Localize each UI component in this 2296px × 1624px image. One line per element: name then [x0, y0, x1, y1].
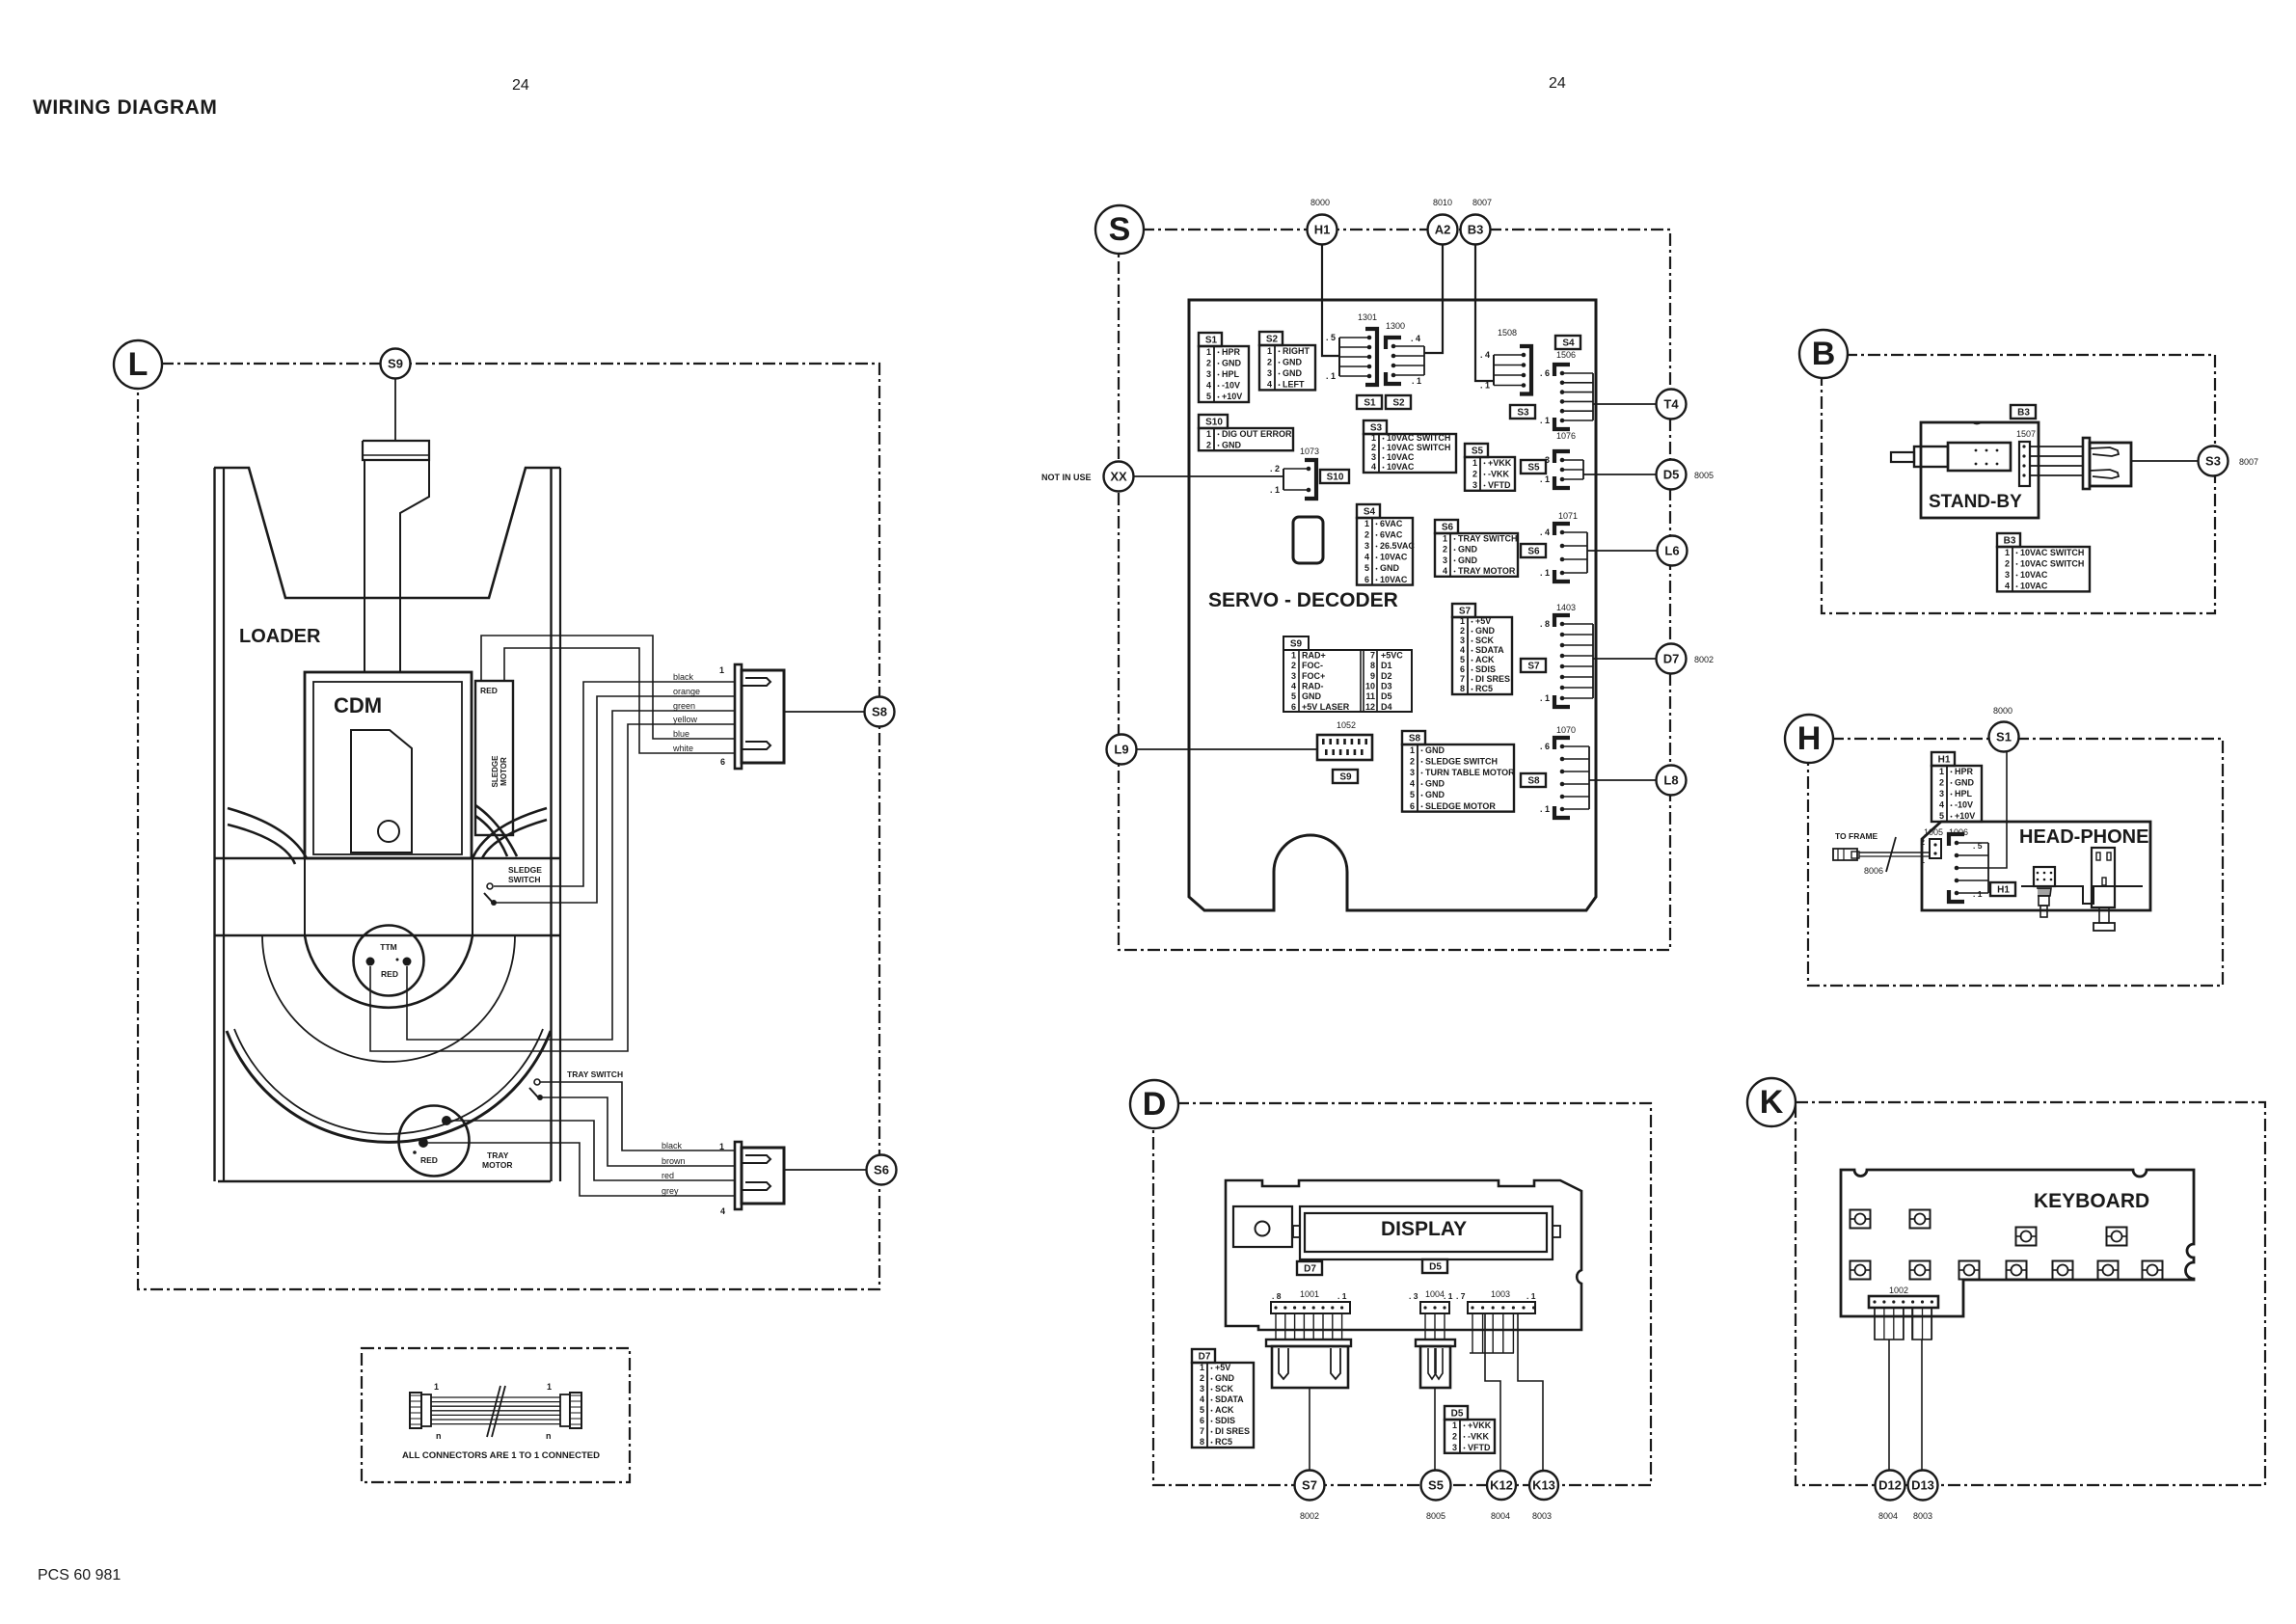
svg-text:5: 5 [1410, 790, 1415, 799]
svg-text:26.5VAC: 26.5VAC [1380, 541, 1415, 551]
svg-text:. 1: . 1 [1444, 1291, 1453, 1301]
svg-text:n: n [436, 1431, 442, 1441]
plug 1001 [1266, 1340, 1351, 1388]
svg-text:1: 1 [434, 1382, 439, 1392]
svg-text:1076: 1076 [1556, 431, 1576, 441]
svg-text:B3: B3 [1468, 223, 1484, 237]
svg-text:S9: S9 [388, 357, 403, 371]
wire 1006 bus to S1 [1988, 752, 2007, 868]
svg-text:H: H [1797, 720, 1822, 757]
svg-text:+5VC: +5VC [1381, 650, 1403, 660]
svg-text:grey: grey [662, 1186, 679, 1196]
boxed label D5 [1422, 1259, 1447, 1273]
svg-text:S7: S7 [1302, 1478, 1317, 1493]
svg-text:2: 2 [1472, 469, 1477, 478]
svg-text:8005: 8005 [1694, 471, 1714, 480]
wire orange S8 pin2 [496, 696, 735, 903]
node D12 [1876, 1471, 1905, 1501]
svg-text:8004: 8004 [1491, 1511, 1510, 1521]
svg-text:S9: S9 [1339, 772, 1352, 783]
svg-text:DIG OUT ERROR: DIG OUT ERROR [1222, 429, 1292, 439]
svg-text:1: 1 [1472, 458, 1477, 468]
wire grey S6 pin4 [428, 1143, 735, 1196]
svg-text:2: 2 [1921, 838, 1926, 847]
svg-text:VFTD: VFTD [1468, 1443, 1491, 1452]
svg-text:6: 6 [1364, 575, 1369, 584]
svg-text:24: 24 [512, 77, 529, 94]
svg-text:S: S [1109, 211, 1131, 248]
node L [114, 340, 162, 389]
svg-text:TRAY: TRAY [487, 1150, 509, 1160]
svg-text:red: red [662, 1171, 674, 1180]
wire yellow S8 pin4 [370, 724, 735, 1051]
ribbon connector left [410, 1393, 431, 1428]
svg-text:5: 5 [1200, 1405, 1204, 1415]
svg-text:1: 1 [1371, 433, 1376, 443]
svg-text:-10V: -10V [1222, 381, 1240, 391]
svg-text:A2: A2 [1435, 223, 1451, 237]
deck verticals [304, 858, 306, 935]
headphone jack left [2034, 867, 2055, 917]
svg-text:LOADER: LOADER [239, 626, 321, 647]
svg-text:black: black [662, 1141, 683, 1150]
svg-text:. 1: . 1 [1540, 474, 1550, 484]
svg-text:. 7: . 7 [1456, 1291, 1466, 1301]
svg-text:5: 5 [1460, 655, 1465, 664]
svg-text:FOC+: FOC+ [1302, 671, 1325, 681]
svg-text:D7: D7 [1304, 1264, 1316, 1275]
svg-text:8003: 8003 [1532, 1511, 1552, 1521]
svg-text:1: 1 [1200, 1363, 1204, 1372]
svg-text:D13: D13 [1911, 1478, 1934, 1493]
node D [1130, 1080, 1178, 1128]
wire 1003 to K13 [1518, 1313, 1543, 1470]
svg-text:. 8: . 8 [1272, 1291, 1282, 1301]
svg-text:5: 5 [1206, 392, 1211, 401]
svg-text:LEFT: LEFT [1283, 380, 1305, 390]
node L6 [1658, 536, 1688, 566]
svg-text:L9: L9 [1114, 743, 1128, 757]
svg-text:12: 12 [1365, 702, 1375, 712]
svg-text:SLEDGE SWITCH: SLEDGE SWITCH [1425, 756, 1498, 766]
svg-text:8002: 8002 [1694, 655, 1714, 664]
svg-text:GND: GND [1425, 745, 1445, 755]
svg-text:3: 3 [1364, 541, 1369, 551]
node K [1747, 1078, 1796, 1126]
svg-text:8: 8 [1370, 661, 1375, 670]
svg-text:+VKK: +VKK [1468, 1421, 1492, 1430]
svg-text:3: 3 [1371, 452, 1376, 462]
svg-text:. 5: . 5 [1973, 841, 1983, 851]
svg-text:green: green [673, 701, 695, 711]
svg-text:H1: H1 [1314, 223, 1331, 237]
svg-text:TURN TABLE MOTOR: TURN TABLE MOTOR [1425, 768, 1515, 777]
display side tabs [1293, 1226, 1300, 1237]
svg-text:. 1: . 1 [1270, 485, 1280, 495]
svg-text:8: 8 [1460, 684, 1465, 693]
svg-text:6VAC: 6VAC [1380, 529, 1403, 539]
svg-text:1508: 1508 [1498, 328, 1517, 338]
svg-text:CDM: CDM [334, 693, 382, 717]
wire H1 to 1301 [1322, 244, 1339, 356]
svg-text:6: 6 [1200, 1416, 1204, 1425]
svg-text:GND: GND [1283, 357, 1303, 366]
servo decoder board outline [1189, 300, 1596, 910]
svg-text:+VKK: +VKK [1488, 458, 1512, 468]
ribbon slash [487, 1386, 500, 1437]
svg-text:white: white [672, 744, 693, 753]
svg-text:DI SRES: DI SRES [1215, 1426, 1250, 1436]
svg-text:1: 1 [1206, 347, 1211, 357]
wire 1003 to K12 [1485, 1313, 1500, 1470]
wire to D13 [1921, 1340, 1923, 1470]
svg-text:7: 7 [1370, 650, 1375, 660]
svg-text:D2: D2 [1381, 671, 1392, 681]
svg-text:ALL CONNECTORS ARE 1 TO 1 CONN: ALL CONNECTORS ARE 1 TO 1 CONNECTED [402, 1450, 600, 1461]
svg-text:S7: S7 [1527, 662, 1540, 672]
svg-text:GND: GND [1425, 779, 1445, 789]
node H [1785, 715, 1833, 763]
node S5 display [1421, 1471, 1451, 1501]
node S9 [381, 349, 411, 379]
svg-text:S4: S4 [1364, 507, 1376, 518]
svg-text:3: 3 [1939, 789, 1944, 798]
svg-text:XX: XX [1110, 470, 1127, 484]
node S [1095, 205, 1144, 254]
svg-text:10VAC: 10VAC [1380, 575, 1408, 584]
CDM arm stem [363, 441, 429, 460]
svg-text:MOTOR: MOTOR [482, 1160, 512, 1170]
svg-text:3: 3 [2005, 570, 2010, 580]
svg-text:. 4: . 4 [1411, 334, 1420, 343]
loader deck lines [214, 857, 560, 860]
svg-text:. 1: . 1 [1326, 371, 1336, 381]
svg-text:. 1: . 1 [1540, 693, 1550, 703]
svg-text:1073: 1073 [1300, 447, 1319, 456]
svg-text:1: 1 [547, 1382, 552, 1392]
wire plug to S5 [1434, 1388, 1436, 1470]
svg-text:GND: GND [1215, 1373, 1235, 1383]
table S4 [1357, 504, 1415, 585]
svg-text:6VAC: 6VAC [1380, 519, 1403, 528]
svg-text:2: 2 [1939, 777, 1944, 787]
svg-text:. 5: . 5 [1326, 333, 1336, 342]
svg-text:KEYBOARD: KEYBOARD [2034, 1190, 2149, 1212]
svg-text:RAD-: RAD- [1302, 681, 1324, 690]
svg-text:2: 2 [1267, 357, 1272, 366]
svg-text:L6: L6 [1664, 544, 1679, 558]
svg-text:orange: orange [673, 687, 700, 696]
node D5 [1657, 460, 1687, 490]
svg-text:1: 1 [719, 665, 724, 675]
svg-text:S10: S10 [1205, 418, 1223, 428]
svg-text:. 4: . 4 [1480, 350, 1490, 360]
svg-text:8000: 8000 [1993, 706, 2012, 716]
wire plug to S3 [2131, 460, 2199, 462]
svg-text:6: 6 [1291, 702, 1296, 712]
block K dashed border [1796, 1102, 2265, 1485]
svg-text:1004: 1004 [1425, 1289, 1445, 1299]
boxed label S3 [1510, 405, 1535, 419]
svg-text:9: 9 [1370, 671, 1375, 681]
svg-text:MOTOR: MOTOR [500, 757, 508, 786]
svg-text:5: 5 [1939, 811, 1944, 821]
svg-text:4: 4 [1206, 381, 1211, 391]
svg-text:2: 2 [1371, 443, 1376, 452]
svg-text:. 1: . 1 [1480, 381, 1490, 391]
svg-text:4: 4 [1267, 380, 1272, 390]
svg-text:. 6: . 6 [1540, 742, 1550, 751]
svg-text:SLEDGE: SLEDGE [508, 865, 542, 875]
head-phone board [1922, 822, 2150, 910]
svg-text:STAND-BY: STAND-BY [1929, 492, 2022, 512]
svg-text:HPR: HPR [1222, 347, 1241, 357]
node S8 [865, 697, 895, 727]
keyboard keys [1850, 1210, 1871, 1229]
wire black S6 pin1 [540, 1082, 735, 1150]
svg-text:K: K [1760, 1084, 1784, 1121]
svg-text:1: 1 [1267, 346, 1272, 356]
svg-text:WIRING DIAGRAM: WIRING DIAGRAM [33, 96, 217, 119]
svg-text:S5: S5 [1472, 447, 1484, 457]
table H1 [1931, 752, 1982, 822]
svg-text:GND: GND [1475, 626, 1496, 636]
boxed label S6 right [1521, 544, 1546, 557]
tray arcs outer [227, 1031, 551, 1142]
boxed label S10 [1320, 470, 1349, 483]
table B3 [1997, 533, 2090, 591]
svg-text:+5V: +5V [1215, 1363, 1230, 1372]
svg-text:1507: 1507 [2016, 429, 2036, 439]
wire S9 stem [394, 379, 396, 441]
svg-text:S4: S4 [1562, 338, 1575, 349]
svg-text:2: 2 [1206, 440, 1211, 449]
svg-text:4: 4 [1460, 645, 1465, 655]
boxed label S9 below [1333, 770, 1358, 783]
svg-text:10VAC: 10VAC [1387, 452, 1415, 462]
svg-text:L8: L8 [1663, 773, 1678, 788]
svg-text:SLEDGE: SLEDGE [491, 755, 500, 788]
svg-text:1002: 1002 [1889, 1286, 1908, 1295]
svg-text:3: 3 [1460, 636, 1465, 645]
svg-text:GND: GND [1458, 555, 1478, 565]
svg-text:6: 6 [1410, 801, 1415, 811]
svg-text:4: 4 [1939, 800, 1944, 810]
svg-text:HPL: HPL [1955, 789, 1973, 798]
table D7 display [1192, 1349, 1254, 1448]
svg-text:6: 6 [1460, 664, 1465, 674]
svg-text:1052: 1052 [1337, 720, 1356, 730]
table S9 dual [1283, 636, 1412, 712]
svg-text:6: 6 [720, 757, 725, 767]
table S10 [1199, 415, 1293, 450]
svg-text:3: 3 [1410, 768, 1415, 777]
svg-text:H1: H1 [1997, 885, 2010, 896]
svg-text:3: 3 [1452, 1443, 1457, 1452]
svg-text:3: 3 [1200, 1384, 1204, 1394]
svg-text:2: 2 [1460, 626, 1465, 636]
wire plug to S6 [784, 1169, 867, 1171]
svg-text:. 2: . 2 [1270, 464, 1280, 474]
svg-text:S6: S6 [1442, 523, 1454, 533]
svg-text:1: 1 [1410, 745, 1415, 755]
svg-text:. 1: . 1 [1412, 376, 1421, 386]
stand-by switch shaft [1891, 452, 1914, 462]
svg-text:ACK: ACK [1215, 1405, 1234, 1415]
node K13 [1529, 1471, 1558, 1500]
svg-text:S7: S7 [1459, 607, 1472, 617]
svg-text:-VKK: -VKK [1468, 1431, 1489, 1441]
wire blue S8 pin5 [481, 636, 735, 739]
svg-text:1071: 1071 [1558, 511, 1578, 521]
svg-text:B: B [1812, 336, 1836, 372]
svg-text:SDATA: SDATA [1215, 1394, 1244, 1404]
svg-text:SDIS: SDIS [1475, 664, 1496, 674]
block S dashed border [1119, 230, 1670, 950]
wire green S8 pin3 [407, 711, 735, 1040]
sledge switch [487, 883, 493, 889]
sledge motor hinge arcs [475, 805, 517, 856]
svg-text:GND: GND [1302, 691, 1322, 701]
svg-text:2: 2 [1443, 545, 1447, 555]
node D7 [1657, 644, 1687, 674]
svg-text:S3: S3 [1370, 423, 1383, 434]
svg-text:RED: RED [381, 969, 398, 979]
svg-text:HPL: HPL [1222, 369, 1240, 379]
svg-text:1070: 1070 [1556, 725, 1576, 735]
stand-by box [1921, 422, 2039, 518]
svg-text:8004: 8004 [1878, 1511, 1898, 1521]
svg-text:ACK: ACK [1475, 655, 1495, 664]
wire lug to 1005 with slash [1859, 852, 1930, 853]
node B3 [1461, 215, 1491, 245]
svg-text:+5V LASER: +5V LASER [1302, 702, 1350, 712]
svg-text:FOC-: FOC- [1302, 661, 1323, 670]
svg-text:K13: K13 [1532, 1478, 1555, 1493]
svg-text:2: 2 [1206, 358, 1211, 367]
svg-text:2: 2 [1452, 1431, 1457, 1441]
svg-text:S6: S6 [874, 1163, 889, 1177]
connector 1003 header [1468, 1302, 1535, 1313]
wire white S8 pin6 [504, 648, 735, 753]
svg-text:3: 3 [1206, 369, 1211, 379]
node L9 [1107, 735, 1137, 765]
svg-text:10VAC: 10VAC [1387, 462, 1415, 472]
wire L9 to 1052 [1137, 748, 1317, 750]
svg-text:D5: D5 [1381, 691, 1392, 701]
svg-text:D12: D12 [1878, 1478, 1902, 1493]
node B [1799, 330, 1848, 378]
svg-text:S3: S3 [2205, 454, 2221, 469]
connector plug S6 [735, 1142, 784, 1209]
svg-text:S2: S2 [1392, 398, 1405, 409]
svg-text:HPR: HPR [1955, 767, 1974, 776]
node S1 headphone [1989, 722, 2019, 752]
svg-text:GND: GND [1222, 358, 1242, 367]
display left box with hole [1233, 1206, 1292, 1247]
svg-text:10VAC: 10VAC [2020, 582, 2048, 591]
plug 1004 [1416, 1340, 1455, 1388]
svg-text:1: 1 [1206, 429, 1211, 439]
svg-text:TO FRAME: TO FRAME [1835, 831, 1878, 841]
svg-text:RED: RED [420, 1155, 438, 1165]
display window [1300, 1206, 1553, 1259]
table D5 display [1445, 1406, 1495, 1453]
table S7 [1452, 604, 1512, 694]
node S6 [867, 1155, 897, 1185]
wire XX to 1073 [1134, 475, 1283, 477]
node L8 [1657, 766, 1687, 796]
node H1 [1308, 215, 1337, 245]
svg-text:TTM: TTM [380, 942, 396, 952]
svg-text:S5: S5 [1527, 463, 1540, 474]
wires 1002 [1874, 1308, 1876, 1340]
node T4 [1657, 390, 1687, 420]
svg-text:RC5: RC5 [1475, 684, 1493, 693]
wire plug to S8 [784, 711, 865, 713]
svg-text:1: 1 [1460, 616, 1465, 626]
svg-text:black: black [673, 672, 694, 682]
svg-text:3: 3 [1472, 480, 1477, 490]
svg-text:. 1: . 1 [1337, 1291, 1347, 1301]
svg-text:n: n [546, 1431, 552, 1441]
table S6 [1435, 520, 1518, 577]
svg-text:S6: S6 [1527, 547, 1540, 557]
svg-text:1: 1 [1443, 533, 1447, 543]
svg-text:4: 4 [1371, 462, 1376, 472]
svg-text:. 1: . 1 [1540, 416, 1550, 425]
svg-text:SLEDGE MOTOR: SLEDGE MOTOR [1425, 801, 1496, 811]
node D13 [1908, 1471, 1938, 1501]
wire red S6 pin3 [451, 1121, 735, 1180]
svg-text:8: 8 [1200, 1437, 1204, 1447]
svg-text:11: 11 [1365, 691, 1375, 701]
svg-text:2: 2 [1200, 1373, 1204, 1383]
svg-text:2: 2 [1410, 756, 1415, 766]
standby plug [2083, 438, 2131, 489]
tray motor [399, 1106, 470, 1177]
svg-text:SDATA: SDATA [1475, 645, 1504, 655]
svg-text:D: D [1143, 1086, 1167, 1123]
svg-text:-VKK: -VKK [1488, 469, 1509, 478]
svg-text:S2: S2 [1266, 335, 1279, 345]
svg-text:. 4: . 4 [1540, 528, 1550, 537]
tray switch [534, 1079, 540, 1085]
svg-text:brown: brown [662, 1156, 686, 1166]
svg-text:L: L [128, 346, 149, 383]
turntable motor TTM [354, 926, 424, 996]
svg-text:yellow: yellow [673, 715, 698, 724]
boxed label S5 right [1521, 460, 1546, 474]
wire plug to S7 [1309, 1388, 1310, 1470]
node S7 display [1295, 1471, 1325, 1501]
svg-text:B3: B3 [2017, 408, 2030, 419]
svg-text:+5V: +5V [1475, 616, 1491, 626]
headphone jack right [2092, 848, 2115, 931]
svg-text:5: 5 [1364, 563, 1369, 573]
component box small [1293, 517, 1323, 563]
boxed label B3 [2011, 405, 2036, 419]
svg-text:8007: 8007 [2239, 457, 2258, 467]
wires 1003 short [1472, 1313, 1473, 1353]
svg-text:3: 3 [1291, 671, 1296, 681]
svg-text:10: 10 [1365, 681, 1375, 690]
svg-text:D3: D3 [1381, 681, 1392, 690]
svg-text:GND: GND [1955, 777, 1975, 787]
svg-text:D5: D5 [1663, 468, 1680, 482]
svg-text:1403: 1403 [1556, 603, 1576, 612]
svg-text:GND: GND [1380, 563, 1400, 573]
